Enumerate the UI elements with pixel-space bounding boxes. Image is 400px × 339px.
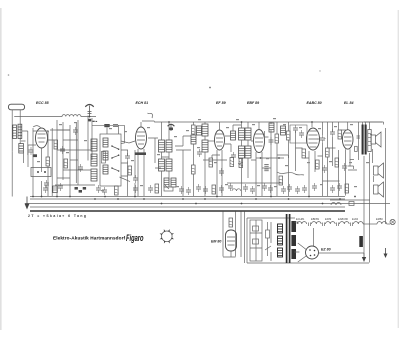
wire EZ80 top feed [313, 228, 315, 246]
IF transformer T1 winding C [159, 159, 165, 171]
antenna link wire right [21, 131, 28, 163]
cap marks V6 [357, 136, 360, 138]
heater cap 1 [309, 223, 311, 227]
cap C25 [342, 163, 347, 171]
resistor R7 [192, 165, 196, 174]
dial pointer arrow mid [168, 124, 175, 131]
heater cap 3 [337, 223, 339, 227]
antenna stem left line [11, 110, 13, 152]
cap above bus extra 9 [302, 185, 307, 193]
tube V6 EL84 [342, 130, 353, 149]
antenna coil winding left [13, 125, 17, 139]
cap C24 [322, 165, 327, 173]
cap C18 [287, 184, 292, 192]
oscillator coil winding 3 [91, 169, 97, 181]
dipole antenna arrow [85, 105, 93, 122]
winding blob left low [53, 186, 58, 193]
speaker SP2 [374, 163, 384, 178]
wire stage2-3 link [176, 150, 191, 196]
wire link stage3 h [212, 125, 241, 158]
heater cap 2 [323, 223, 325, 227]
resistor R15 [338, 130, 342, 139]
svg-text:EL84: EL84 [352, 217, 359, 221]
heater chain scallop 2 [312, 222, 322, 224]
components above bus row: cap [96, 185, 101, 193]
wire V1 plate column [48, 128, 52, 196]
svg-text:EBF 89: EBF 89 [247, 101, 259, 105]
wire link stage4 h [251, 131, 303, 168]
wire IF2 verticals [242, 122, 249, 196]
wire stage3 left col [204, 122, 206, 196]
primary winding 1 [278, 224, 283, 233]
tube V3 EF89 [215, 130, 225, 150]
label marks near feeder [93, 121, 98, 122]
resistor R9 [230, 158, 234, 167]
stacked caps det [264, 165, 268, 171]
cap C17 [281, 186, 286, 194]
svg-text:ECH81: ECH81 [296, 217, 305, 221]
IF winding stage3 A [202, 124, 208, 136]
cap above bus [102, 187, 107, 195]
cap C19 [295, 186, 300, 194]
svg-text:2T = »Skala« 6 Tang: 2T = »Skala« 6 Tang [28, 214, 86, 218]
magic eye EM80 [226, 230, 237, 251]
IF transformer T1 winding A [159, 140, 165, 152]
coil pack inner rect [101, 152, 105, 164]
wire EM80 feeds [223, 212, 236, 257]
resistor above bus extra [155, 184, 159, 193]
cap C1 [29, 147, 34, 155]
output transformer primary dark bar [362, 125, 364, 155]
detector box outline [290, 125, 307, 143]
wire V2 top [140, 122, 142, 127]
wire V5 top [311, 122, 313, 127]
coil pack box [100, 134, 121, 186]
svg-text:EZ 80: EZ 80 [321, 248, 331, 252]
resistor R16 [316, 160, 320, 169]
small comp on choke row [349, 202, 354, 206]
IF winding stage3 B [202, 140, 208, 152]
mains entry box [250, 220, 262, 261]
wire link left stage h2 [57, 130, 78, 178]
IF transformer T2 winding B [245, 128, 251, 140]
tone coil above bus [232, 189, 241, 191]
wire det columns [271, 122, 296, 196]
cap C20 [299, 130, 304, 138]
svg-text:EL 84: EL 84 [344, 101, 354, 105]
volume pot wavy wire [277, 172, 304, 175]
wire tuner cross 1 [50, 130, 95, 185]
wire speakers bus [364, 128, 386, 263]
cap above bus extra 2 [58, 183, 63, 191]
heater chain end [387, 223, 390, 225]
heater cap 4 [351, 223, 353, 227]
wire y160 link [203, 159, 227, 161]
bus line 5 chassis [30, 210, 345, 212]
grid cap wire V1 [33, 126, 41, 128]
cap above bus extra 6 [219, 185, 224, 193]
resistor R12 volume [279, 176, 283, 185]
V2 base bar [135, 152, 146, 155]
switch contact [265, 222, 271, 261]
PSU box outline [245, 212, 370, 264]
wire V6 legs [346, 149, 351, 195]
node dipole feed [89, 116, 91, 118]
wire box top feeds [107, 125, 119, 134]
bus line 3 [25, 203, 390, 205]
wire V4 top [258, 122, 260, 130]
antenna coil winding right [18, 124, 22, 138]
cap above bus extra 3 [148, 185, 153, 193]
winding det A [269, 123, 274, 132]
coil L8 [231, 131, 236, 140]
secondary winding 1 [291, 221, 296, 232]
wire link left stage h1 [28, 131, 54, 167]
cap C14 [293, 125, 298, 133]
svg-text:EM 80: EM 80 [211, 240, 221, 244]
wire IF1 verticals [162, 122, 170, 196]
cap above bus extra 1 [43, 185, 48, 193]
cap above bus extra 7 [243, 184, 248, 192]
padder trimmer above box [104, 124, 118, 127]
cap C4 [73, 127, 78, 135]
cap above bus [186, 187, 191, 195]
pilot lamp right edge [390, 219, 395, 224]
wire EM80 bottom [223, 212, 241, 258]
svg-text:EBF89: EBF89 [311, 217, 319, 221]
bus junction dots [32, 196, 356, 205]
output transformer core bar [365, 125, 367, 155]
wire V4 legs [256, 152, 262, 196]
resistor R4 [64, 159, 68, 168]
resistor above bus extra 2 [345, 184, 349, 193]
svg-text:EABC 80: EABC 80 [307, 101, 322, 105]
fuse [266, 222, 270, 256]
resistor above bus [212, 185, 216, 194]
antenna cap top [8, 104, 24, 110]
cap C16 [268, 185, 273, 193]
cap above bus [179, 186, 184, 194]
IF transformer T1 winding D [166, 159, 172, 171]
wire speaker feed [350, 135, 372, 160]
top left rail with coil [14, 115, 96, 117]
cap C9 [219, 168, 224, 176]
output transformer secondary winding [368, 130, 371, 152]
wire transformer top [363, 122, 384, 130]
rectifier EZ80 socket [306, 246, 319, 259]
wire link stage5 h [304, 130, 354, 169]
dust speck [209, 87, 211, 89]
svg-text:EM80: EM80 [376, 217, 383, 221]
wire right column stage2 [193, 122, 195, 196]
wire EZ80 output [319, 252, 365, 254]
tube V4 EBF89 [254, 130, 265, 153]
coil L7 [191, 135, 196, 144]
heater chain link [363, 223, 377, 225]
wire link output h [323, 160, 358, 182]
wire V3 top [219, 122, 221, 130]
resistor R6 [192, 125, 196, 134]
cap C12 [269, 137, 274, 145]
cap above bus extra 10 [312, 183, 317, 191]
node rail junction 2 [241, 121, 243, 123]
oscillator coil winding 1 [91, 139, 97, 151]
dust speck [319, 70, 320, 71]
tuner section vertical a [56, 120, 58, 196]
resistor R17 [335, 158, 339, 167]
diode load line [256, 157, 284, 159]
wire V2 cathode legs [138, 149, 144, 196]
pot above bus [164, 185, 173, 191]
wire V1 left column [32, 128, 34, 196]
IF transformer T2 winding C [239, 146, 245, 158]
svg-text:ECH 81: ECH 81 [136, 101, 149, 105]
speaker SP1 [371, 132, 381, 147]
IF transformer T2 winding D [245, 146, 251, 158]
svg-text:EF89: EF89 [325, 217, 332, 221]
resistor R10 [275, 134, 279, 143]
mains entry box divider [250, 220, 262, 261]
primary winding 2 [278, 236, 283, 245]
tube V5 EABC80 [307, 128, 320, 150]
tube V1 ECC85 [36, 128, 48, 154]
cap C6 [125, 153, 130, 161]
tuner section vertical b [62, 122, 64, 180]
cap C22 [330, 129, 335, 137]
wire V3 legs [217, 150, 222, 196]
IF transformer T1 winding B [166, 140, 172, 152]
resistor above bus [115, 186, 119, 195]
svg-text:Elektro-Akustik Hartmannsdorf: Elektro-Akustik Hartmannsdorf [53, 236, 126, 241]
AVC line [227, 182, 283, 184]
winding det B [281, 126, 286, 135]
wire V6 top [347, 122, 349, 130]
value labels scatter [37, 118, 369, 191]
resistor R3 [54, 140, 58, 149]
cap above bus extra 12 [337, 183, 342, 191]
cap C10 [231, 152, 236, 160]
wire secondary to heater rail [294, 222, 299, 252]
feeder line over coil box [92, 125, 124, 143]
transformer core [287, 214, 290, 263]
speaker SP3 [374, 182, 384, 197]
node rail junction 1 [168, 121, 170, 123]
switch contact blobs [75, 187, 87, 193]
bus line 4 [30, 206, 345, 208]
bottom coil pair L5 [164, 178, 169, 187]
page scan edge right [398, 10, 399, 328]
mains contact 2 [253, 239, 259, 244]
resistor R11 [287, 131, 291, 140]
coil pack winding 1 [103, 138, 108, 147]
dust speck [8, 74, 10, 76]
coil pack winding 2 [103, 151, 108, 160]
cap C7 [133, 175, 138, 183]
coil pack contacts [111, 145, 119, 172]
svg-text:EF 89: EF 89 [216, 101, 226, 105]
heater chain scallop 3 [326, 222, 336, 224]
bus line 1 [30, 196, 345, 198]
heater chain scallop 6 [377, 222, 387, 224]
AFC box [31, 168, 51, 177]
coil pack winding 3 [103, 165, 108, 174]
wire link mixer h [121, 150, 128, 176]
tube V2 ECH81 [136, 127, 147, 149]
cap above bus [133, 185, 138, 193]
wire V5 legs [309, 151, 315, 196]
mains contact 1 [253, 226, 259, 231]
cap C2 [44, 180, 49, 188]
dial gear symbol [160, 229, 174, 243]
heater chain scallop 4 [340, 222, 350, 224]
wire link IF1 h [148, 136, 191, 168]
cap C21 coupling [320, 135, 325, 143]
resistor R9b [239, 159, 243, 168]
scribble near label [148, 113, 153, 118]
wire stage5 columns [323, 122, 359, 196]
cap C5 [78, 164, 83, 172]
tuner vertical from dipole [88, 116, 92, 161]
bus line 2 [30, 198, 345, 200]
cap above bus extra 8 [250, 186, 255, 194]
heater labels [296, 217, 383, 221]
cap above bus extra 5 [203, 186, 208, 194]
cap C3 [60, 146, 65, 154]
secondary winding 3 [291, 249, 296, 259]
node stage5 [311, 121, 313, 123]
resistor R14 [326, 148, 330, 157]
wire V3 grid link [208, 140, 215, 142]
antenna lower coil [19, 144, 24, 154]
resistor R1 [46, 157, 50, 166]
svg-text:ECC 85: ECC 85 [36, 101, 50, 105]
wire V1 cathode [41, 154, 43, 196]
main top rail [142, 121, 382, 122]
svg-text:Figaro: Figaro [126, 232, 144, 243]
switch lever wire [120, 177, 131, 182]
choke row right [330, 200, 370, 205]
cap above bus extra 11 [330, 185, 335, 193]
oscillator coil winding 2 [91, 154, 97, 166]
secondary winding 2 [291, 235, 296, 246]
wire coilbox to V2 grid [121, 141, 135, 143]
NTC resistor dark [359, 236, 363, 247]
resistor R8 [209, 158, 213, 167]
ground at rectifier line [362, 253, 366, 262]
page scan edge left [0, 8, 2, 330]
cap C8 [197, 149, 202, 157]
cap above bus extra 4 [196, 184, 201, 192]
cap above bus [228, 183, 233, 191]
resistor R5 [128, 166, 132, 175]
tuner section vertical d [76, 120, 78, 185]
ground main [25, 197, 30, 210]
wire EZ80 diagonals [298, 243, 307, 262]
heater chain scallop 1 [297, 222, 307, 224]
screen resistor V6 [355, 146, 358, 151]
IF transformer T2 winding A [239, 128, 245, 140]
ground right edge [384, 248, 388, 258]
wire antenna down [11, 151, 13, 196]
bottom coil pair L6 [171, 178, 176, 187]
resistor R13 [302, 149, 306, 158]
wire under V2 [128, 150, 136, 196]
primary winding 3 [278, 248, 283, 257]
tuner section vertical c [69, 125, 71, 196]
cap C15 [262, 183, 267, 191]
antenna stem right line [19, 110, 21, 144]
IF winding stage3 A0 [197, 126, 202, 135]
pad C1b [33, 154, 37, 157]
resistor R18 EM80 grid [229, 218, 233, 227]
heater chain scallop 5 [354, 222, 364, 224]
svg-text:EABC80: EABC80 [338, 217, 349, 221]
